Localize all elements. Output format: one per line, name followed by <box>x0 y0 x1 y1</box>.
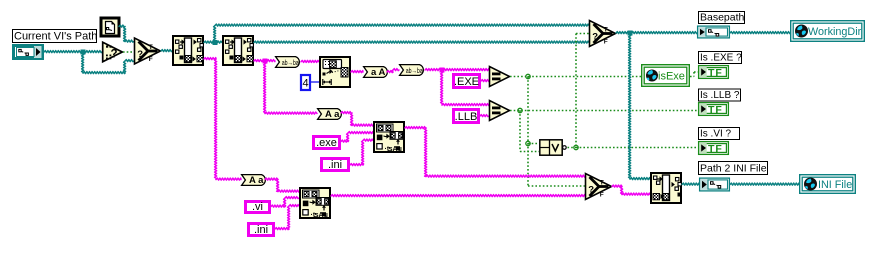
wire: Or output to vertical rail <box>568 147 577 149</box>
path indicator terminal "Basepath" <box>698 26 730 38</box>
wire: branch up to top rail to Select S2 t input <box>214 26 216 43</box>
svg-text:ab→ba: ab→ba <box>282 58 300 67</box>
svg-text:TF: TF <box>708 67 723 79</box>
svg-text:Is .LLB ?: Is .LLB ? <box>700 90 740 101</box>
wire: To-Upper to Reverse String 2 <box>387 71 393 73</box>
function Equal? 1 <box>490 67 510 87</box>
svg-text:T: T <box>149 44 153 51</box>
function String Subset <box>320 57 350 87</box>
function Build Path <box>651 173 681 203</box>
wire: Strip Path 1 path output to Strip Path 2 <box>204 41 222 43</box>
wire: .ini 2 to Search-Replace 2 replace input <box>275 228 289 230</box>
wire: control to Not-A-Path input <box>44 51 102 53</box>
wire: .EXE to Equal 1 y input <box>481 80 489 82</box>
function Search and Replace String 2 <box>300 188 330 218</box>
path control terminal "Current VI's Path" <box>12 44 44 60</box>
svg-text:isExe: isExe <box>658 70 685 82</box>
path indicator terminal "Path 2 INI File" <box>700 178 730 191</box>
svg-text:.ini: .ini <box>328 159 342 171</box>
wire: bottom of isExe branch to Select S3 s input <box>528 185 585 187</box>
global variable "WorkingDir" <box>791 21 865 42</box>
function To Lower Case "A a" 2 <box>242 175 266 186</box>
svg-text:.LLB: .LLB <box>455 111 478 123</box>
label "Current VI's Path" <box>13 30 97 43</box>
svg-text:T: T <box>600 180 604 187</box>
wire: Select S2 output to Basepath terminal <box>616 32 697 34</box>
wire: branch down to Equal 2 x input <box>441 70 443 105</box>
svg-text:F: F <box>600 192 604 199</box>
wire: Search-Replace 2 output to Select S3 f input <box>331 195 585 197</box>
label "Is .VI ?" <box>699 128 740 140</box>
svg-text:T: T <box>604 27 608 34</box>
svg-text:.vi: .vi <box>252 201 263 213</box>
svg-text:TF: TF <box>708 104 723 116</box>
junction isLLB boolean <box>518 108 522 112</box>
svg-text:TF: TF <box>708 143 723 155</box>
label "Basepath" <box>699 12 745 24</box>
wire: isExe branch down to Or input and Select S3 s <box>527 77 529 187</box>
svg-text:Current VI's Path: Current VI's Path <box>14 31 97 43</box>
wire: Or output up to Select S2 s input <box>575 34 577 148</box>
svg-text:ab→ba: ab→ba <box>406 66 424 75</box>
wire: isLLB branch down to Or lower input <box>519 111 521 152</box>
function Select S3 (ini name chooser) <box>586 174 612 200</box>
svg-text:4: 4 <box>302 78 308 90</box>
wire: .vi to Search-Replace 2 search input <box>271 205 285 207</box>
wire: .ini to Search-Replace 1 replace input <box>350 164 363 166</box>
svg-text:Path 2 INI File: Path 2 INI File <box>700 163 767 175</box>
function Reverse String 2 "ab-ba" <box>400 65 424 76</box>
wire: Equal 1 output (isExe boolean) <box>510 76 641 78</box>
wire: .LLB to Equal 2 y input <box>480 115 489 117</box>
wire: branch down to To-Lower 1 <box>264 61 266 114</box>
wire: Select S1 output to Strip Path 1 <box>161 50 172 52</box>
junction on stripped path wire <box>213 40 218 45</box>
function Strip Path 1 <box>173 36 203 65</box>
function To Upper Case "a A" <box>364 67 388 78</box>
junction isExe boolean <box>526 74 530 78</box>
svg-text:Is .VI ?: Is .VI ? <box>700 129 732 140</box>
wire: To-Lower 1 to Search-Replace 1 input <box>341 112 352 114</box>
function Reverse String 1 "ab-ba" <box>276 57 300 68</box>
string constant ".exe" <box>314 137 340 149</box>
wire: To-Lower 2 to Search-Replace 2 input <box>265 178 278 180</box>
wire: Basepath terminal to WorkingDir global <box>730 32 790 34</box>
string constant ".LLB" <box>454 110 479 123</box>
function "Not A Path?" <box>103 42 123 62</box>
wire: isExe global to Is .EXE ? indicator <box>690 76 694 78</box>
svg-text:?: ? <box>111 49 118 61</box>
wire: .exe to Search-Replace 1 search input <box>341 140 348 142</box>
function To Lower Case "A a" 1 <box>318 109 342 120</box>
junction at Or upper input <box>526 141 530 145</box>
wire: Reverse String 2 to Equal 1 x input <box>425 69 489 71</box>
label "Is .LLB ?" <box>699 89 741 101</box>
string constant ".ini" 1 <box>322 159 349 171</box>
junction on extension string wire <box>440 68 445 73</box>
function Strip Path 2 <box>223 36 253 65</box>
svg-text:A a: A a <box>325 109 340 120</box>
boolean indicator "Is .LLB ?" <box>699 103 729 116</box>
junction on control wire <box>81 50 86 55</box>
wire: Or output right to Is .VI ? indicator <box>576 147 698 149</box>
function Select S1 <box>135 38 161 64</box>
wire: Search-Replace 1 output to Select S3 t input <box>405 127 426 129</box>
function Select S2 (basepath chooser) <box>590 21 616 47</box>
boolean indicator "Is .EXE ?" <box>699 66 729 79</box>
svg-text:.exe: .exe <box>316 137 337 149</box>
wire: Strip Path 1 name output down to To-Lower 2 <box>204 58 216 60</box>
svg-text:Basepath: Basepath <box>700 12 745 24</box>
label "Is .EXE ?" <box>699 52 742 64</box>
junction on basepath wire <box>628 31 633 36</box>
constant "Current VI Path" icon <box>101 18 119 36</box>
wire: Path 2 INI File terminal to INI File global <box>730 183 799 185</box>
svg-text:WorkingDir: WorkingDir <box>808 26 862 38</box>
wire: Equal 2 output (isLLB boolean) <box>510 110 698 112</box>
svg-text:INI File: INI File <box>818 179 852 191</box>
svg-text:A a: A a <box>249 175 264 186</box>
wire: 4 to String Subset length input <box>310 81 319 83</box>
global variable "isExe" <box>642 65 690 87</box>
global variable "INI File" <box>800 175 856 194</box>
svg-text:·ʦAu: ·ʦAu <box>311 212 328 219</box>
function Or <box>540 140 562 155</box>
wire: Strip Path 2 path output to Select S2 f input <box>254 41 589 43</box>
wire: basepath branch down to Build Path <box>629 33 631 179</box>
wire: Build Path output to Path 2 INI File terminal <box>682 183 699 185</box>
wire: constant to Select t input <box>119 25 125 27</box>
wire: String Subset to To-Upper <box>351 71 363 73</box>
svg-text:.ini: .ini <box>254 224 268 236</box>
string constant ".EXE" <box>454 75 480 88</box>
wire: Strip Path 2 name output to Reverse String 1 <box>254 60 275 62</box>
svg-text:·ʦAu: ·ʦAu <box>385 146 402 153</box>
wire: branch down and around to Select f input <box>82 52 84 73</box>
boolean indicator "Is .VI ?" <box>699 142 729 155</box>
wire: Not-A-Path output to Select s input (boolean) <box>123 51 134 53</box>
string constant ".ini" 2 <box>249 224 274 236</box>
wire: Reverse String 1 to String Subset <box>301 60 319 62</box>
svg-text:.EXE: .EXE <box>454 76 479 88</box>
svg-text:a A: a A <box>371 67 386 78</box>
svg-text:F: F <box>604 39 608 46</box>
junction Or output <box>574 145 578 149</box>
string constant ".vi" <box>246 202 270 213</box>
svg-text:Is .EXE ?: Is .EXE ? <box>700 53 742 64</box>
label "Path 2 INI File" <box>699 162 768 175</box>
wire: Select S3 output to Build Path name input <box>612 185 622 187</box>
constant "4" <box>301 75 310 90</box>
function Search and Replace String 1 <box>374 122 404 152</box>
svg-text:F: F <box>149 56 153 63</box>
junction on name string wire <box>263 59 268 64</box>
function Equal? 2 <box>490 101 510 121</box>
